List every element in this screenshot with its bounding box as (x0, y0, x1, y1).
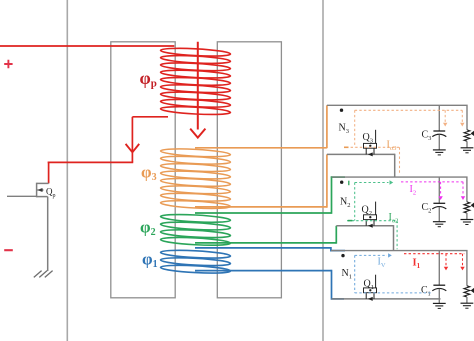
wire: source lead of Qp (47, 197, 49, 271)
load arrow R3 (471, 131, 474, 136)
transistor Qp (37, 182, 49, 184)
flux arrow phi_p (down through core) (197, 42, 199, 130)
load arrow R2 (471, 203, 474, 208)
current loop I_o3 dashed (355, 109, 463, 111)
wire: Q2 return to N1 rail (393, 225, 395, 251)
wire: winding1 bottom drop to Q1 (332, 270, 345, 299)
ground below R3 (461, 147, 474, 149)
current loop I_1 dashed red (404, 253, 464, 255)
wire: winding1 top lead with jog to N1 rail (195, 248, 345, 251)
wire: Q1 source wire (bottom rail) (332, 298, 441, 300)
node − (input negative terminal) (4, 249, 13, 251)
wire: R1 to ground (466, 297, 468, 303)
load arrow R1 (471, 288, 474, 293)
ground (chassis) below Qp (45, 271, 53, 278)
wire: winding3 top riser to N3 rail (326, 105, 328, 148)
wire: R2 to ground (466, 213, 468, 220)
wire: Q3 source wire (327, 153, 395, 155)
wire: winding2 bottom riser to Q2 (335, 226, 337, 244)
wire: primary return horizontal (48, 161, 134, 163)
transistor Q1 (364, 288, 377, 293)
transistor Q2 (364, 215, 377, 220)
transformer core window right (217, 42, 281, 298)
winding 3 coil (160, 148, 230, 158)
wire: winding3 bottom lead (195, 206, 327, 208)
wire: winding2 top lead (195, 212, 332, 214)
current loop I_o2 dashed green (355, 182, 389, 184)
polarity minus mark stage3 (344, 146, 349, 148)
winding 1 coil (160, 249, 230, 259)
capacitor C1 (438, 251, 440, 286)
wire: winding2 rail tip overlay (331, 176, 345, 178)
ground below C2 (433, 221, 446, 223)
wire: N2 top rail (332, 177, 467, 202)
ground below C1 (433, 302, 446, 304)
wire: input positive rail (0, 45, 174, 47)
capacitor C3 (438, 105, 440, 131)
resistor R2 load (464, 202, 470, 213)
resistor R3 load (464, 130, 470, 141)
wire: winding3 top lead (195, 147, 327, 149)
green tick stage2 (348, 181, 350, 186)
wire: gate lead of Qp (7, 195, 37, 197)
transistor Q3 (364, 143, 377, 148)
wire: R3 to ground (466, 141, 468, 148)
node + (input positive terminal) (4, 60, 12, 68)
wire: primary return vertical with current arrow (131, 117, 133, 163)
transformer core window left (111, 42, 175, 298)
wire: primary bottom lead (132, 116, 168, 118)
ground below C3 (433, 149, 446, 151)
wire: N1 top rail (331, 251, 467, 286)
node N3 polarity dot (340, 109, 343, 112)
capacitor C2 (438, 177, 440, 203)
wire: region boundary line left (66, 0, 68, 341)
node N1 polarity dot (341, 254, 344, 257)
current loop I_2 dashed magenta (401, 181, 464, 183)
wire: region boundary line right (322, 0, 324, 341)
wire: winding3 bottom riser to Q3 (326, 154, 328, 207)
wire: drain lead of Qp (48, 162, 50, 184)
wire: Q2 source wire (336, 225, 393, 227)
wire: Q3 return to N2 rail (394, 154, 396, 177)
ground below R1 (461, 302, 474, 304)
wire: winding2 top riser to N2 rail (331, 176, 333, 213)
current loop I_V dashed blue (355, 254, 387, 256)
wire: winding2 bottom lead (195, 242, 336, 244)
winding 2 coil (160, 213, 230, 223)
ground below R2 (461, 219, 474, 221)
winding P primary coil (160, 47, 230, 57)
polarity minus mark stage2 (348, 220, 353, 222)
wire: C1 ground stub (438, 299, 440, 304)
node N2 polarity dot (340, 181, 343, 184)
wire: winding1 bottom lead (195, 270, 332, 272)
wire: N3 top rail (327, 105, 467, 130)
resistor R1 load (464, 286, 470, 297)
